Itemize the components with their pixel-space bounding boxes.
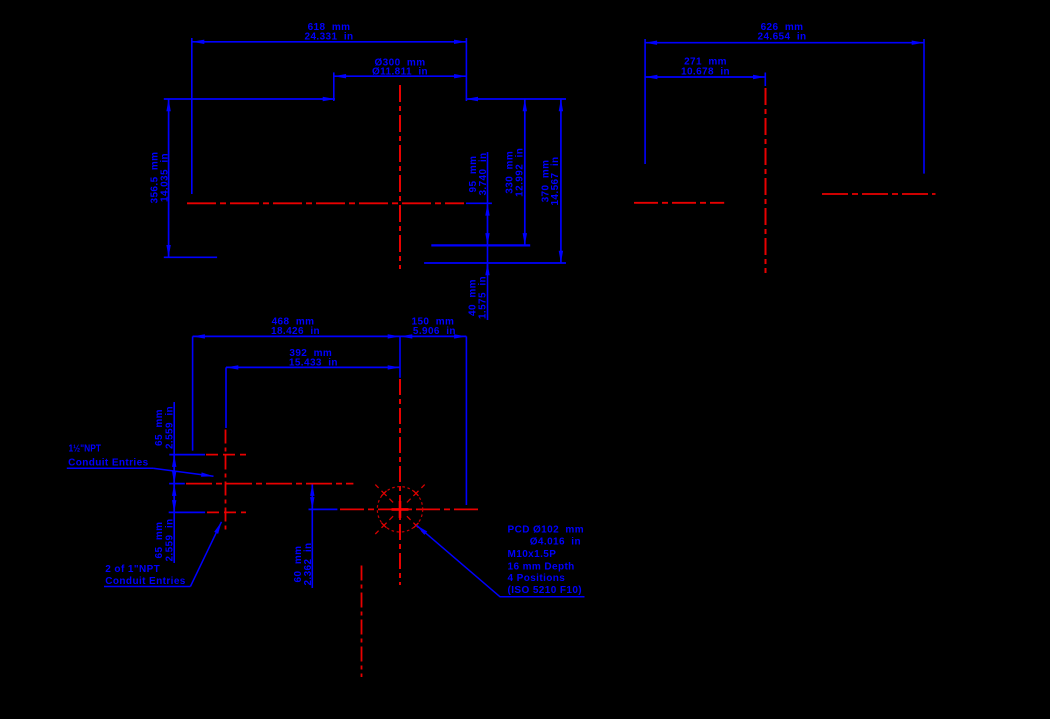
label 2 of 1 NPT conduit entries xyxy=(104,522,222,587)
red vertical centerline flange column xyxy=(399,379,401,585)
svg-text:14.567 in: 14.567 in xyxy=(550,156,561,205)
extension line right of 150 dim xyxy=(465,336,467,505)
red dash bottom conduit xyxy=(207,511,246,513)
PCD bolt circle xyxy=(377,487,422,532)
top edge reference line right with arrow xyxy=(466,98,566,100)
extension line shared 468/150/392 xyxy=(399,336,401,377)
svg-text:1½"NPT: 1½"NPT xyxy=(69,444,102,455)
svg-text:65 mm: 65 mm xyxy=(154,409,165,446)
top edge reference line left with arrow xyxy=(164,98,335,100)
dimension 626 mm top xyxy=(645,22,924,43)
flange centerline blue segment xyxy=(309,508,338,510)
red main horizontal centerline bottom view xyxy=(186,483,353,485)
horizontal centerline front view xyxy=(187,202,464,204)
extension line left of 618 dim xyxy=(191,38,193,194)
dimension 95 mm vertical xyxy=(468,152,489,245)
red horizontal centerline flange xyxy=(340,508,478,510)
svg-text:(ISO 5210 F10): (ISO 5210 F10) xyxy=(508,585,583,596)
svg-text:4 Positions: 4 Positions xyxy=(508,573,566,584)
vertical centerline side view xyxy=(765,88,767,273)
extension line left of Ø300 dim xyxy=(333,72,335,101)
bottom conduit reference line xyxy=(169,511,205,513)
svg-text:Conduit Entries: Conduit Entries xyxy=(105,576,185,587)
svg-text:Ø4.016 in: Ø4.016 in xyxy=(530,537,581,548)
svg-text:24.331 in: 24.331 in xyxy=(304,32,353,43)
dimension 392 mm xyxy=(226,348,400,368)
svg-text:Conduit Entries: Conduit Entries xyxy=(68,457,148,468)
svg-text:24.654 in: 24.654 in xyxy=(757,32,806,43)
dimension 40 mm vertical below xyxy=(467,245,488,320)
extension line left of 626 dim xyxy=(644,39,646,164)
dimension Ø300 mm xyxy=(334,58,467,78)
horizontal centerline side view right xyxy=(822,193,936,195)
dimension 370 mm vertical xyxy=(541,99,562,263)
dimension 65 mm lower xyxy=(154,484,175,562)
red lower vertical centerline xyxy=(361,566,363,678)
base bottom reference line right xyxy=(424,262,566,264)
svg-text:PCD Ø102 mm: PCD Ø102 mm xyxy=(508,525,585,536)
PCD text block xyxy=(508,525,585,597)
extension stub below 271 dim xyxy=(764,73,766,87)
svg-text:10.678 in: 10.678 in xyxy=(681,66,730,77)
dimension 150 mm xyxy=(400,316,466,337)
svg-text:12.992 in: 12.992 in xyxy=(514,148,525,197)
bolt position markers xyxy=(389,499,393,503)
bottom edge reference line left xyxy=(164,256,217,258)
svg-text:5.906 in: 5.906 in xyxy=(413,326,456,337)
dimension 330 mm vertical xyxy=(505,99,526,245)
flange bottom reference line right xyxy=(431,244,530,246)
dimension 65 mm upper xyxy=(154,402,175,563)
vertical centerline front view xyxy=(399,85,401,269)
dimension 271 mm xyxy=(645,57,765,78)
svg-text:2.559 in: 2.559 in xyxy=(164,518,175,561)
flange center cross bright xyxy=(392,508,409,511)
svg-text:65 mm: 65 mm xyxy=(154,522,165,559)
middle centerline reference blue xyxy=(169,483,185,485)
PCD leader line xyxy=(417,525,585,597)
dimension 618 mm top xyxy=(192,22,466,43)
top conduit reference line xyxy=(169,454,205,456)
extension line left of 392 dim xyxy=(225,367,227,428)
red dash top conduit xyxy=(206,454,246,456)
dimension 356.5 mm vertical left xyxy=(149,99,170,257)
svg-text:2 of 1"NPT: 2 of 1"NPT xyxy=(105,564,160,575)
extension line right of 626 dim xyxy=(923,39,925,174)
centerline extension for 95 dim xyxy=(466,202,492,204)
dimension 468 mm xyxy=(193,316,400,337)
svg-text:18.426 in: 18.426 in xyxy=(271,326,320,337)
svg-text:M10x1.5P: M10x1.5P xyxy=(508,549,557,560)
svg-text:16 mm Depth: 16 mm Depth xyxy=(508,562,575,573)
horizontal centerline side view left xyxy=(634,202,724,204)
label 1/2 NPT conduit entries xyxy=(67,444,214,477)
red centerline vertical conduit column xyxy=(225,430,227,532)
extension line right shared 618/Ø300 xyxy=(465,38,467,101)
extension line left of 468 dim xyxy=(192,336,194,450)
dimension 60 mm xyxy=(293,484,314,588)
